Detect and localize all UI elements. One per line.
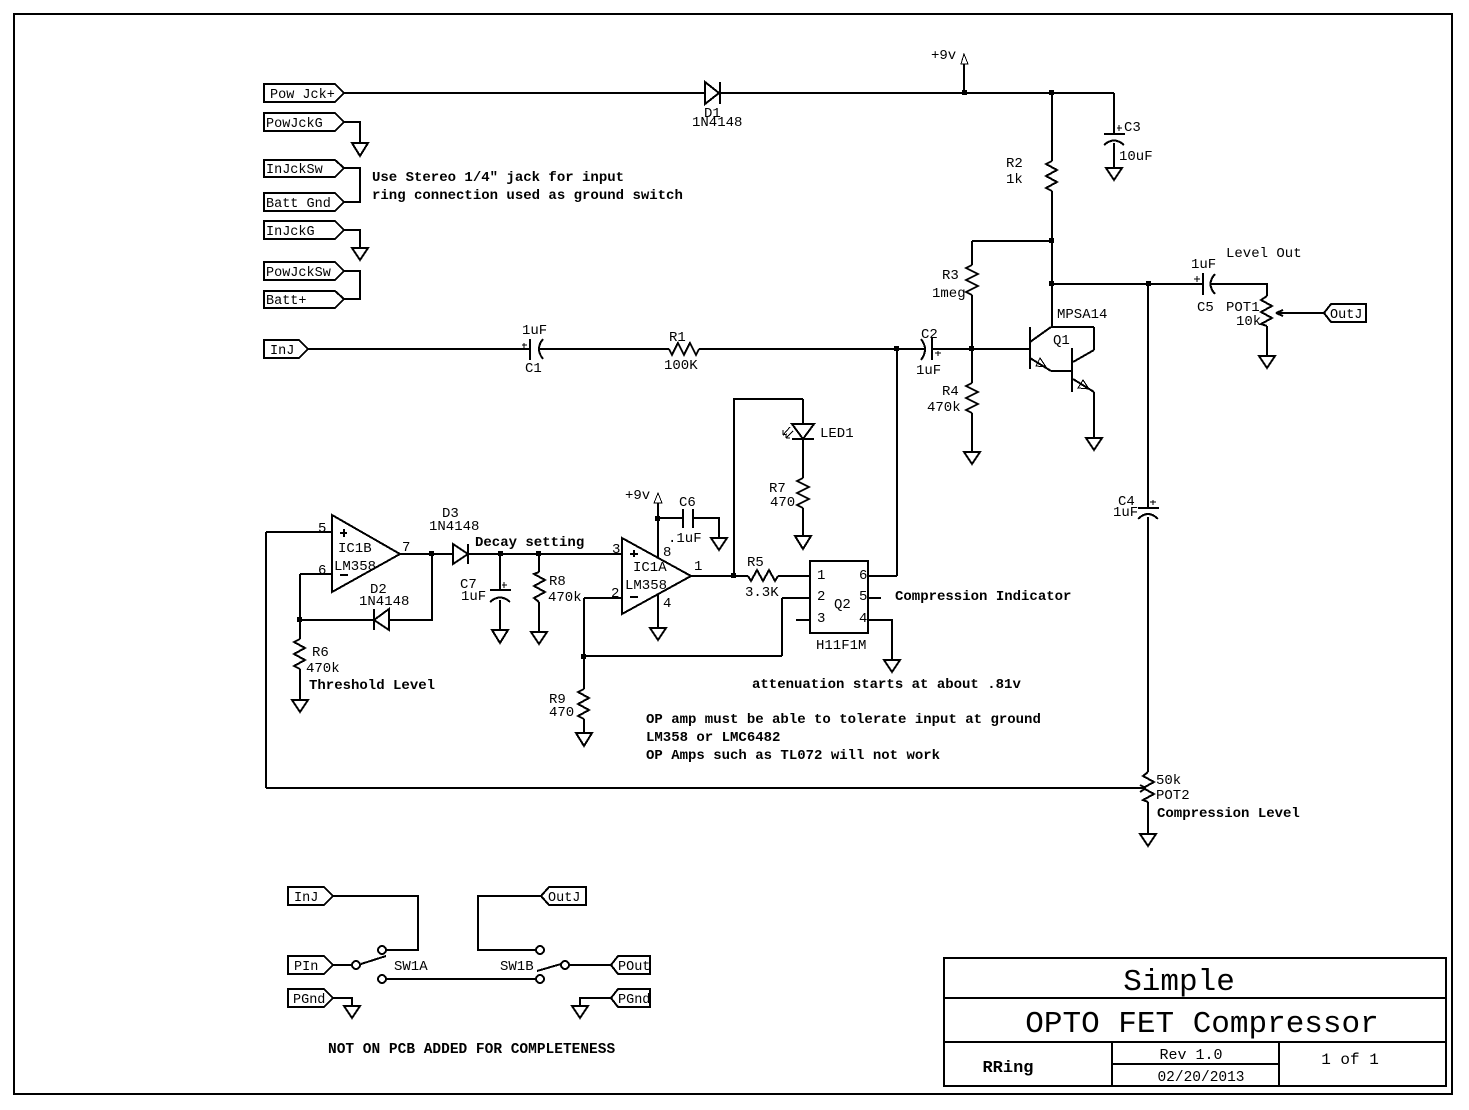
svg-text:IC1A: IC1A <box>633 560 667 576</box>
net flag PGnd left <box>288 989 333 1007</box>
svg-text:NOT ON PCB ADDED FOR COMPLETEN: NOT ON PCB ADDED FOR COMPLETENESS <box>328 1042 615 1058</box>
svg-text:MPSA14: MPSA14 <box>1057 307 1107 323</box>
svg-text:Batt Gnd: Batt Gnd <box>266 197 331 212</box>
ground IC1A pin4 <box>650 628 666 640</box>
wire SW1A to SW1B bottom <box>385 978 536 980</box>
wire C2 to divider <box>932 348 972 350</box>
wire Q1 collector riser <box>1051 241 1053 327</box>
IC1A plus input mark <box>630 550 638 557</box>
junction R2 bottom <box>1049 238 1054 243</box>
wire C4 to POT2 <box>1147 517 1149 772</box>
wire R3 to base node <box>971 295 973 349</box>
net flag OutJ output <box>1324 304 1366 322</box>
plus C1 <box>522 343 527 348</box>
wire rail to C3 <box>1113 93 1115 134</box>
svg-text:InJ: InJ <box>294 891 318 906</box>
wire POT1 to ground <box>1266 326 1268 356</box>
wire feedback <box>584 655 782 657</box>
resistor R6 <box>294 639 305 669</box>
net flag Batt+ <box>264 291 344 308</box>
svg-text:Decay setting: Decay setting <box>475 535 584 551</box>
ground InJckG <box>352 248 368 260</box>
wire OutJ to SW1B <box>478 896 541 950</box>
plus C2 <box>935 351 941 356</box>
svg-text:PGnd: PGnd <box>293 993 325 1008</box>
wire C1 to R1 <box>540 348 669 350</box>
wire InJ to C1 <box>308 348 530 350</box>
net flag Batt Gnd <box>264 193 344 211</box>
wire R3 stem top <box>971 241 973 265</box>
ground R7 <box>795 536 811 549</box>
svg-text:PIn: PIn <box>294 960 318 975</box>
svg-text:+9v: +9v <box>931 48 956 64</box>
svg-text:3: 3 <box>817 611 825 627</box>
svg-text:C6: C6 <box>679 495 696 511</box>
plus C7 <box>502 582 507 588</box>
svg-text:IC1B: IC1B <box>338 541 372 557</box>
net flag PGnd right <box>611 989 650 1007</box>
junction pin8 <box>655 516 660 521</box>
wire to Q2 pin2 <box>782 597 810 599</box>
op-amp IC1B LM358 <box>332 515 400 592</box>
resistor R3 <box>966 265 978 295</box>
svg-text:470k: 470k <box>927 400 961 416</box>
wire feedback riser <box>781 598 783 656</box>
ground R9 <box>576 733 592 746</box>
wire POut to SW1B <box>568 964 611 966</box>
wire IC1B output <box>400 553 453 555</box>
net flag PowJckSw <box>264 262 344 280</box>
svg-text:5: 5 <box>318 521 326 537</box>
wire POT2 to ground <box>1147 802 1149 834</box>
wire Q2 pin4 to ground <box>867 620 892 660</box>
junction R2 top <box>1049 90 1054 95</box>
svg-text:Rev 1.0: Rev 1.0 <box>1159 1047 1222 1064</box>
ground PGnd left <box>344 1006 360 1018</box>
capacitor C5 1uF <box>1202 273 1204 295</box>
svg-text:Level Out: Level Out <box>1226 246 1302 262</box>
op-amp IC1A LM358 <box>622 538 691 614</box>
svg-text:LM358 or LMC6482: LM358 or LMC6482 <box>646 730 780 746</box>
wire +9v arrow stem <box>963 64 965 93</box>
wire to R6 <box>299 620 301 639</box>
svg-text:Batt+: Batt+ <box>266 294 307 309</box>
svg-text:OP Amps such as TL072 will not: OP Amps such as TL072 will not work <box>646 748 940 764</box>
ground C6 <box>711 538 727 550</box>
wire R7 to ground <box>802 508 804 536</box>
wire LED1 to R7 <box>802 439 804 478</box>
wire C3 to ground <box>1113 143 1115 168</box>
ground C3 <box>1106 168 1122 180</box>
svg-text:50k: 50k <box>1156 773 1181 789</box>
svg-text:1 of 1: 1 of 1 <box>1321 1051 1379 1069</box>
capacitor C4 1uF <box>1138 507 1159 509</box>
svg-text:LED1: LED1 <box>820 426 854 442</box>
wire C7 to ground <box>499 600 501 630</box>
svg-text:LM358: LM358 <box>334 559 376 575</box>
svg-text:C1: C1 <box>525 361 542 377</box>
svg-text:100K: 100K <box>664 358 698 374</box>
svg-text:3.3K: 3.3K <box>745 585 779 601</box>
junction R8 <box>536 551 541 556</box>
diode D1 1N4148 <box>705 82 719 104</box>
wire pin5 IC1B <box>266 531 332 533</box>
svg-text:3: 3 <box>612 542 620 558</box>
POT1 wiper arrow <box>1276 310 1324 316</box>
wire Q2 pin6 <box>867 575 897 577</box>
svg-text:OP amp must be able to tolerat: OP amp must be able to tolerate input at… <box>646 712 1041 728</box>
wire collector to C5 <box>1052 283 1203 285</box>
net flag OutJ bottom <box>541 887 586 905</box>
junction C7 <box>498 551 503 556</box>
svg-text:4: 4 <box>859 611 867 627</box>
wire to R2 <box>1051 93 1053 161</box>
wire pin2 down <box>583 598 585 656</box>
svg-text:Pow Jck+: Pow Jck+ <box>270 88 335 103</box>
svg-text:POut: POut <box>618 960 650 975</box>
wire C5 to POT1 <box>1210 284 1267 296</box>
resistor R2 <box>1046 161 1057 191</box>
svg-text:InJ: InJ <box>270 344 294 359</box>
resistor R8 <box>534 572 545 602</box>
svg-text:1uF: 1uF <box>916 363 941 379</box>
junction R6 node <box>297 617 302 622</box>
wire node to C2 <box>897 348 925 350</box>
wire R9 to ground <box>583 719 585 733</box>
resistor R7 <box>797 478 809 508</box>
svg-text:LM358: LM358 <box>625 578 667 594</box>
diode D3 1N4148 <box>453 544 468 564</box>
svg-text:PowJckG: PowJckG <box>266 117 323 132</box>
svg-text:6: 6 <box>859 568 867 584</box>
svg-text:02/20/2013: 02/20/2013 <box>1157 1070 1244 1086</box>
wire to C6 <box>658 517 683 519</box>
svg-text:Threshold Level: Threshold Level <box>309 678 435 694</box>
wire to C4 <box>1147 284 1149 507</box>
wire Pow Jck+ to D1 <box>344 92 705 94</box>
wire to R8 <box>538 554 540 572</box>
ground POT2 <box>1140 834 1156 846</box>
svg-text:10k: 10k <box>1236 314 1261 330</box>
wire R5 to Q2 <box>778 575 810 577</box>
svg-text:1uF: 1uF <box>522 323 547 339</box>
net flag POut <box>611 956 650 974</box>
wire pin8 IC1A <box>657 518 659 557</box>
svg-text:4: 4 <box>663 596 671 612</box>
svg-text:470k: 470k <box>548 590 582 606</box>
svg-text:R6: R6 <box>312 645 329 661</box>
svg-text:1meg: 1meg <box>932 286 966 302</box>
svg-text:OutJ: OutJ <box>1330 308 1362 323</box>
potentiometer POT1 10k <box>1261 296 1272 326</box>
resistor R4 <box>966 383 978 413</box>
net flag Pow Jck+ <box>264 84 344 102</box>
svg-text:RRing: RRing <box>982 1059 1033 1078</box>
net flag InJckSw <box>264 160 344 177</box>
junction IC1B out <box>429 551 434 556</box>
svg-text:C5: C5 <box>1197 300 1214 316</box>
junction divider <box>969 346 974 351</box>
net flag InJckG <box>264 221 344 239</box>
svg-text:R5: R5 <box>747 555 764 571</box>
svg-text:6: 6 <box>318 563 326 579</box>
svg-text:Q1: Q1 <box>1053 333 1070 349</box>
resistor R5 <box>748 570 778 581</box>
wire D1 to +9v rail <box>720 92 1114 94</box>
wire InJ to SW1A <box>333 896 418 950</box>
svg-text:470k: 470k <box>306 661 340 677</box>
wire pin6 down <box>299 574 301 620</box>
wire PGnd left <box>333 998 352 1006</box>
wire +9v stem IC1A <box>657 503 659 518</box>
wire Q1 emitter to ground <box>1093 392 1095 438</box>
ground POT1 <box>1259 356 1275 368</box>
svg-text:10uF: 10uF <box>1119 149 1153 165</box>
svg-text:OutJ: OutJ <box>548 891 580 906</box>
stub Q2 pin3 <box>796 619 810 621</box>
svg-text:C2: C2 <box>921 327 938 343</box>
wire pin4 IC1A <box>657 594 659 628</box>
net flag InJ bottom <box>288 887 333 905</box>
svg-text:Simple: Simple <box>1123 965 1235 1000</box>
svg-text:470: 470 <box>770 495 795 511</box>
wire to Q1 base <box>972 348 1029 350</box>
opto-fet Q2 H11F1M <box>810 561 868 633</box>
svg-text:1N4148: 1N4148 <box>359 594 409 610</box>
svg-text:InJckG: InJckG <box>266 225 315 240</box>
svg-text:1k: 1k <box>1006 172 1023 188</box>
svg-text:H11F1M: H11F1M <box>816 638 866 654</box>
junction +9v rail <box>962 90 967 95</box>
ground PowJckG <box>352 143 368 156</box>
svg-text:2: 2 <box>817 589 825 605</box>
wire D3 to IC1A pin3 <box>468 553 622 555</box>
wire PIn to SW1A <box>333 964 353 966</box>
plus C5 <box>1194 276 1200 282</box>
svg-text:InJckSw: InJckSw <box>266 163 323 178</box>
svg-text:OPTO FET Compressor: OPTO FET Compressor <box>1025 1007 1378 1042</box>
wire InJckSw to Batt Gnd <box>344 168 360 202</box>
ground R6 <box>292 700 308 712</box>
wire D2 to node <box>300 619 374 621</box>
svg-text:5: 5 <box>859 589 867 605</box>
svg-text:1uF: 1uF <box>1113 505 1138 521</box>
switch SW1A <box>378 946 386 954</box>
svg-text:R8: R8 <box>549 574 566 590</box>
svg-text:Q2: Q2 <box>834 597 851 613</box>
+9v arrow IC1A <box>654 493 662 503</box>
net flag InJ input <box>264 340 308 358</box>
capacitor C7 1uF <box>490 589 511 591</box>
wire to LED1 <box>802 399 804 424</box>
LED1 emission arrows <box>783 427 790 435</box>
svg-text:1N4148: 1N4148 <box>429 519 479 535</box>
IC1B plus input mark <box>340 529 347 537</box>
svg-text:R2: R2 <box>1006 156 1023 172</box>
wire pin6 riser to node <box>896 349 898 576</box>
ground R4 <box>964 452 980 464</box>
net flag PowJckG <box>264 113 344 131</box>
title block <box>944 958 1446 1086</box>
wire R1 to node <box>699 348 897 350</box>
IC1A minus input mark <box>630 596 638 598</box>
wire C6 to ground <box>693 518 719 538</box>
plus C4 <box>1150 500 1156 505</box>
svg-text:SW1B: SW1B <box>500 959 534 975</box>
wire R4 to ground <box>971 413 973 452</box>
stub Q2 pin5 <box>867 597 881 599</box>
wire pin6 IC1B <box>300 573 332 575</box>
wire LED branch <box>734 399 803 576</box>
wire to R4 <box>971 349 973 383</box>
capacitor C6 .1uF <box>683 509 693 528</box>
capacitor C1 1uF <box>529 339 531 360</box>
capacitor C3 10uF <box>1104 133 1125 135</box>
svg-text:PGnd: PGnd <box>618 993 650 1008</box>
wire R6 to ground <box>299 669 301 700</box>
wire PowJckSw to Batt+ <box>344 271 360 299</box>
svg-text:8: 8 <box>663 545 671 561</box>
svg-text:ring connection used as ground: ring connection used as ground switch <box>372 188 683 204</box>
IC1B minus input mark <box>340 574 348 576</box>
wire pin2 IC1A <box>584 597 622 599</box>
resistor R9 <box>578 689 589 719</box>
ground Q2 pin4 <box>884 660 900 672</box>
svg-text:Compression Indicator: Compression Indicator <box>895 589 1071 605</box>
wire PowJckG to ground <box>344 122 360 143</box>
svg-text:1: 1 <box>817 568 825 584</box>
diode D2 1N4148 <box>374 609 389 630</box>
svg-text:1: 1 <box>694 559 702 575</box>
wire InJckG to ground <box>344 230 360 248</box>
potentiometer POT2 50k <box>1143 772 1154 802</box>
wire R2 to node <box>1051 191 1053 241</box>
svg-text:attenuation starts at about .8: attenuation starts at about .81v <box>752 677 1021 693</box>
svg-text:470: 470 <box>549 705 574 721</box>
wire R8 to ground <box>538 602 540 632</box>
junction signal node <box>894 346 899 351</box>
wire node to R3 top <box>972 240 1052 242</box>
wire to R9 <box>583 656 585 689</box>
svg-text:1uF: 1uF <box>461 589 486 605</box>
svg-text:Use Stereo 1/4" jack for input: Use Stereo 1/4" jack for input <box>372 170 624 186</box>
net flag PIn <box>288 956 333 974</box>
wire IC1A output <box>691 575 748 577</box>
svg-text:R4: R4 <box>942 384 959 400</box>
ground R8 <box>531 632 547 644</box>
transistor Q1 MPSA14 darlington <box>1029 327 1031 369</box>
junction R9 node <box>581 654 586 659</box>
LED LED1 <box>792 424 814 439</box>
svg-text:.1uF: .1uF <box>668 531 702 547</box>
plus C3 <box>1117 125 1122 131</box>
ground Q1 emitter <box>1086 438 1102 450</box>
svg-text:POT2: POT2 <box>1156 788 1190 804</box>
wire left vertical bus <box>265 532 267 788</box>
svg-text:R1: R1 <box>669 330 686 346</box>
junction collector out <box>1049 281 1054 286</box>
+9v arrow top <box>961 54 968 64</box>
svg-text:SW1A: SW1A <box>394 959 428 975</box>
svg-text:R3: R3 <box>942 268 959 284</box>
switch SW1B <box>536 946 544 954</box>
junction LED branch <box>731 573 736 578</box>
svg-text:1N4148: 1N4148 <box>692 115 742 131</box>
svg-text:1uF: 1uF <box>1191 257 1216 273</box>
svg-text:2: 2 <box>611 586 619 602</box>
ground C7 <box>492 630 508 643</box>
svg-text:+9v: +9v <box>625 488 650 504</box>
junction C4 branch <box>1146 281 1151 286</box>
wire to C7 <box>499 554 501 590</box>
wire to D2 <box>389 554 432 620</box>
POT2 wiper arrow wire <box>266 785 1146 792</box>
resistor R1 <box>669 343 699 355</box>
svg-text:PowJckSw: PowJckSw <box>266 266 331 281</box>
wire PGnd right <box>580 998 611 1006</box>
svg-text:Compression Level: Compression Level <box>1157 806 1300 822</box>
svg-text:C3: C3 <box>1124 120 1141 136</box>
ground PGnd right <box>572 1006 588 1018</box>
